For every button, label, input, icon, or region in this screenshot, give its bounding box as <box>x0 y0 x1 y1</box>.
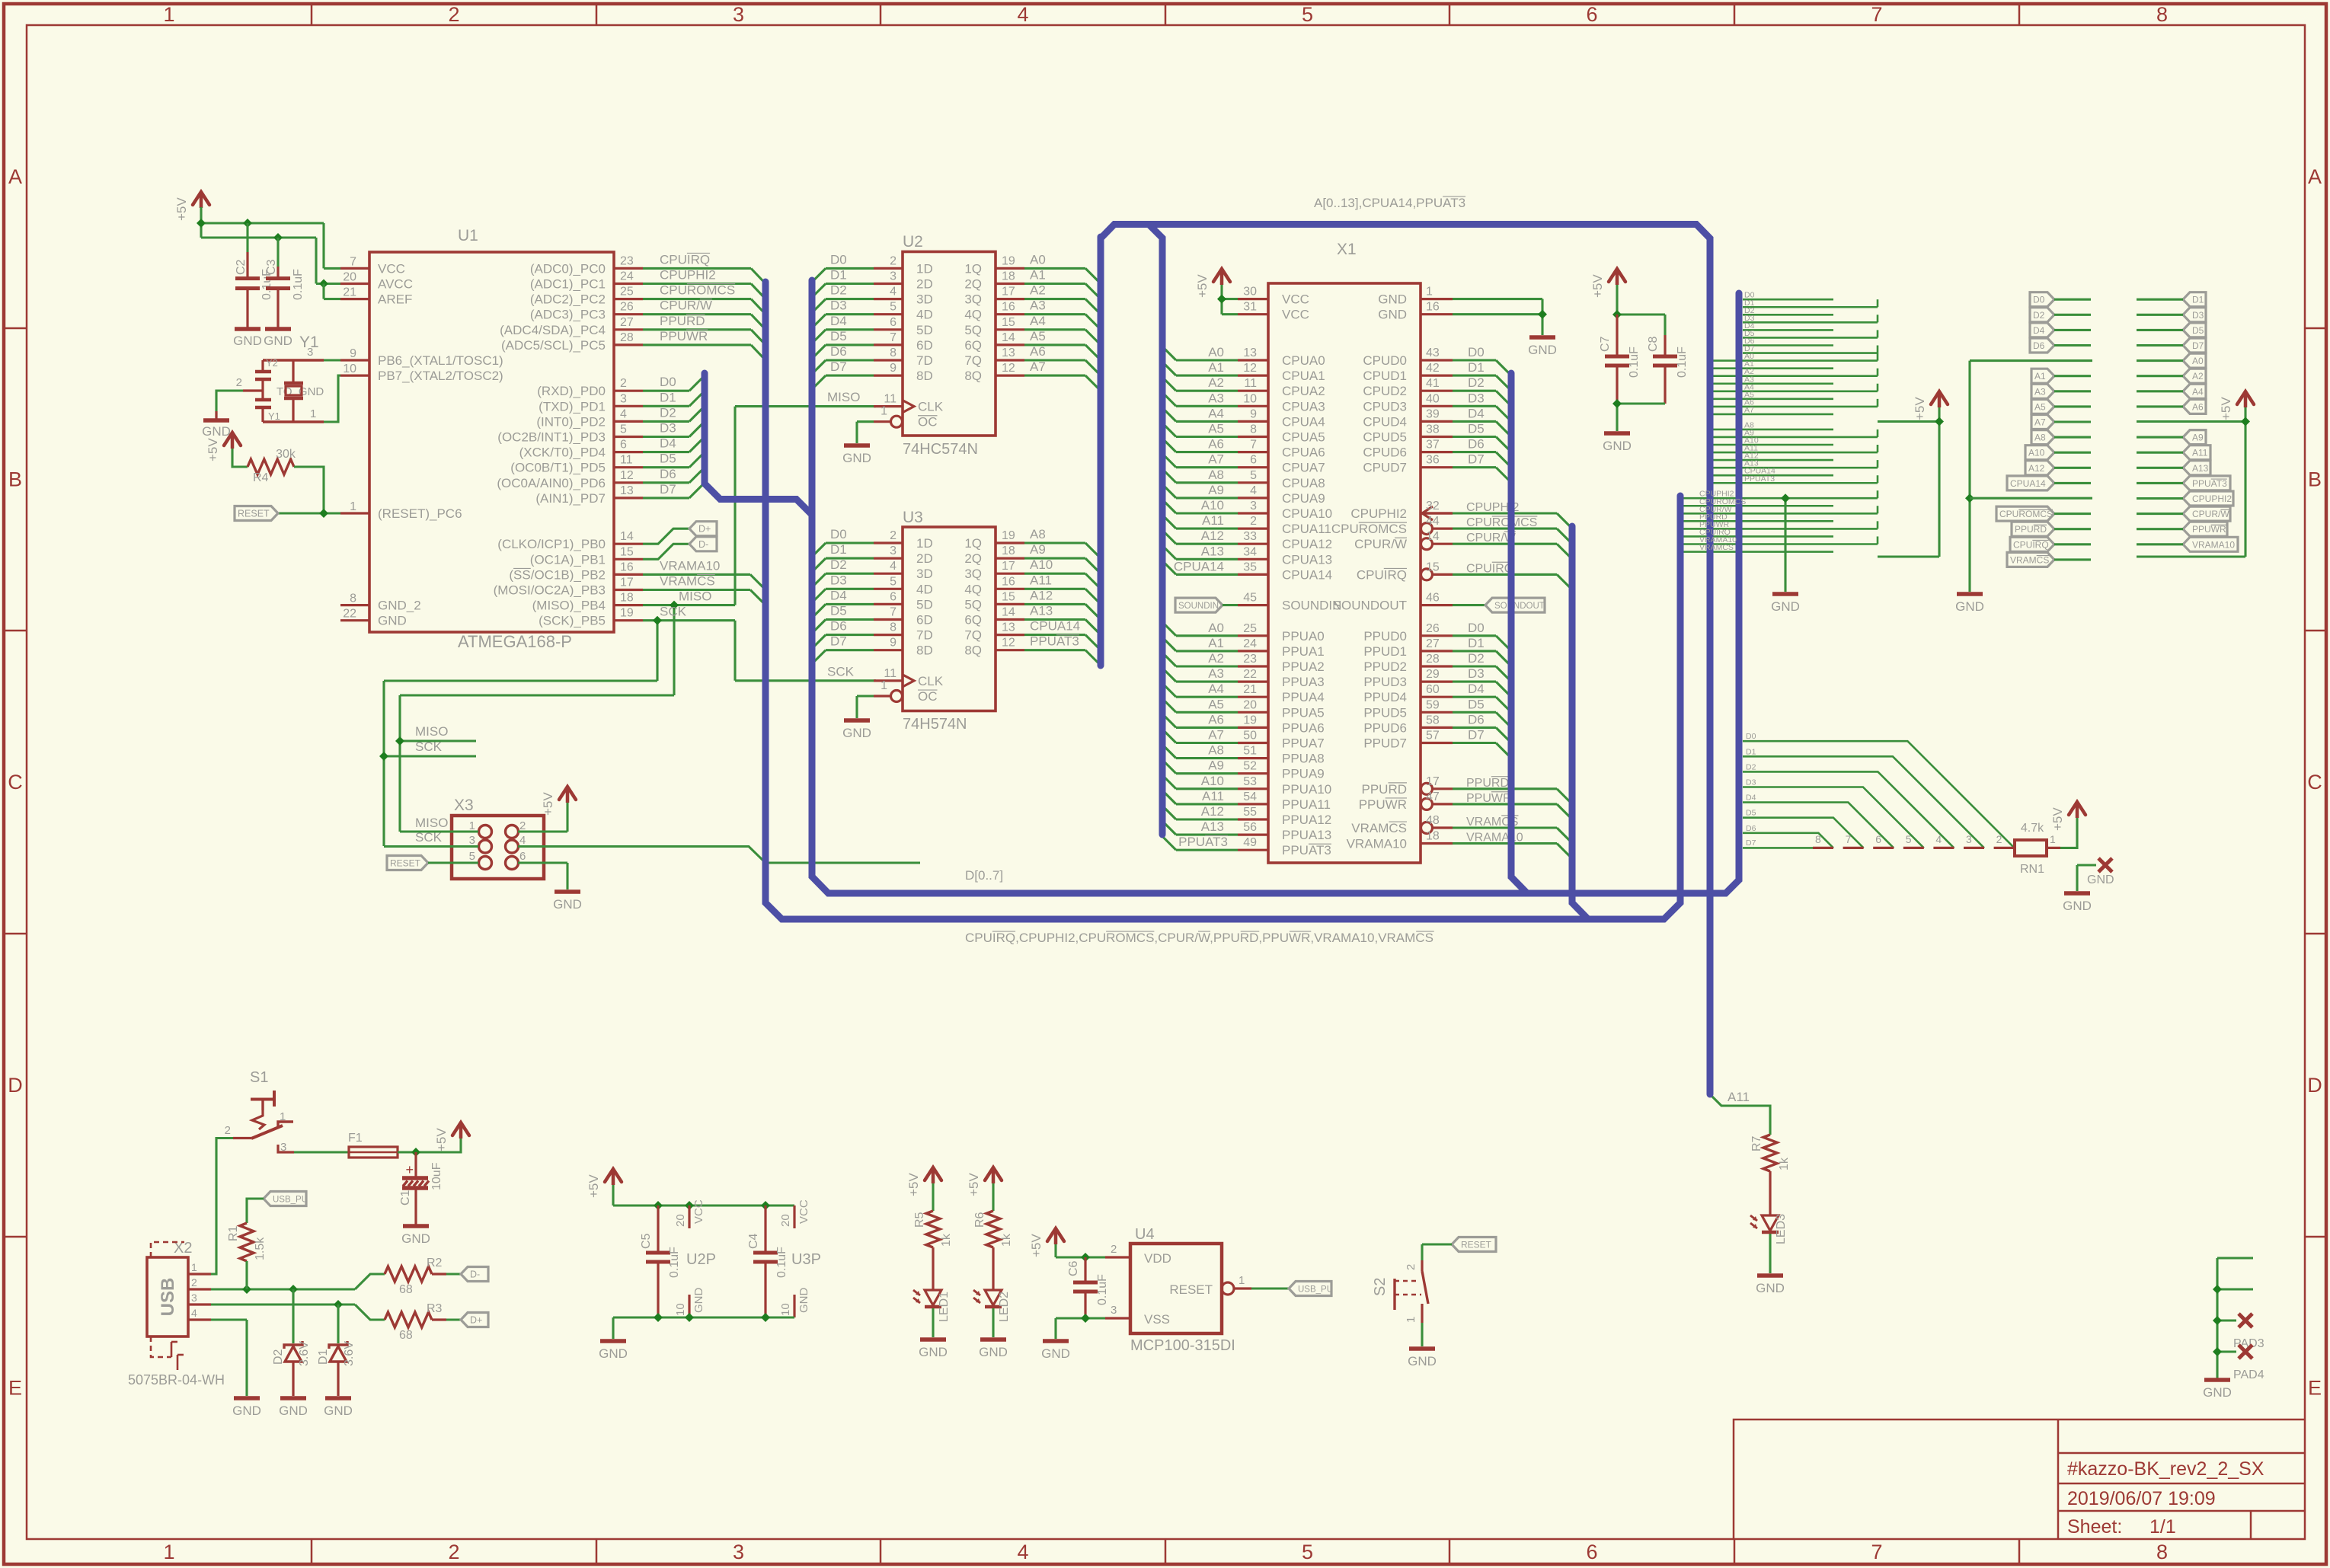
wire ground riser left bundle <box>1784 498 1786 592</box>
svg-text:D7: D7 <box>1468 452 1485 467</box>
svg-text:4: 4 <box>1017 3 1028 26</box>
svg-text:13: 13 <box>1243 346 1257 359</box>
svg-text:Y1: Y1 <box>268 410 280 422</box>
X1 pin 1 GND <box>1421 298 1453 300</box>
svg-text:PPUD5: PPUD5 <box>1363 705 1407 720</box>
svg-text:A8: A8 <box>1208 743 1224 758</box>
X1 pin 9 CPUA4 <box>1238 420 1268 423</box>
svg-text:2: 2 <box>620 377 627 390</box>
svg-text:49: 49 <box>1243 836 1257 849</box>
U1 pin 18 <box>614 604 643 606</box>
flag SOUNDOUT <box>1453 604 1485 606</box>
X1 pin 56 PPUA13 <box>1238 833 1268 835</box>
U2 pin 15 5Q <box>996 328 1024 331</box>
svg-text:3D: 3D <box>916 567 933 581</box>
svg-text:PPUA13: PPUA13 <box>1282 828 1331 842</box>
U3 pin 18 2Q <box>996 557 1024 559</box>
svg-text:3: 3 <box>469 834 475 847</box>
svg-text:20: 20 <box>674 1214 687 1227</box>
wire SCK to X3 pin3 <box>384 845 478 848</box>
junction pad rows <box>2213 1285 2222 1294</box>
wire VRAMA10 from U1 <box>643 573 750 576</box>
svg-text:27: 27 <box>620 316 634 329</box>
svg-text:8: 8 <box>1815 833 1821 845</box>
svg-text:A9: A9 <box>2192 433 2204 443</box>
svg-text:1: 1 <box>881 405 887 418</box>
svg-text:SCK: SCK <box>827 665 855 679</box>
bus data vertical to bottom <box>812 280 1739 893</box>
svg-text:2: 2 <box>1405 1264 1417 1270</box>
wire D4 from X1 PPUD4 to data bus <box>1453 696 1496 698</box>
wire D3 from U1 to data bus <box>643 436 689 438</box>
svg-text:VCC: VCC <box>692 1199 705 1224</box>
flag D2 left column <box>2030 308 2054 322</box>
svg-text:A11: A11 <box>1728 1090 1750 1104</box>
svg-text:GND: GND <box>279 1404 308 1418</box>
ground mid column <box>1957 592 1983 596</box>
svg-text:9: 9 <box>890 362 897 375</box>
svg-text:1: 1 <box>2050 833 2056 845</box>
svg-text:CPUPHI2: CPUPHI2 <box>2192 493 2232 504</box>
svg-text:PPUD6: PPUD6 <box>1363 720 1407 735</box>
svg-text:7: 7 <box>350 255 356 268</box>
svg-text:(MISO)_PB4: (MISO)_PB4 <box>532 599 606 613</box>
svg-text:8D: 8D <box>916 643 933 658</box>
svg-text:C7: C7 <box>1599 336 1612 352</box>
svg-text:PPUA10: PPUA10 <box>1282 782 1331 797</box>
svg-text:4D: 4D <box>916 582 933 596</box>
svg-text:PPUA3: PPUA3 <box>1282 675 1325 689</box>
svg-text:3: 3 <box>280 1141 286 1154</box>
wire AREF <box>319 279 328 289</box>
svg-text:2: 2 <box>448 1541 459 1563</box>
junction C4 top <box>761 1201 770 1210</box>
junction X1 VCC <box>1217 295 1226 304</box>
svg-text:(INT0)_PD2: (INT0)_PD2 <box>536 414 606 429</box>
svg-text:GND: GND <box>1408 1354 1437 1368</box>
X1 pin 24 PPUA1 <box>1238 650 1268 652</box>
X1 pin 60 PPUD4 <box>1421 696 1453 698</box>
flag PPURD left column <box>2012 522 2054 536</box>
svg-text:(CLKO/ICP1)_PB0: (CLKO/ICP1)_PB0 <box>497 537 606 551</box>
svg-text:D6: D6 <box>660 467 676 481</box>
wire RESET to USB_PU flag <box>1251 1287 1289 1289</box>
wire D1 from U1 to data bus <box>643 405 689 407</box>
svg-text:D6: D6 <box>2033 340 2045 351</box>
wire A9 from address bus to X1 CPUA9 <box>1162 484 1176 498</box>
svg-text:D4: D4 <box>660 436 676 451</box>
wire X1 GND pins to ground <box>1453 298 1542 300</box>
wire LED3 to ground <box>1769 1234 1771 1273</box>
svg-text:19: 19 <box>1002 254 1015 267</box>
X1 pin 37 CPUD6 <box>1421 451 1453 453</box>
X1 pin 44 CPUROMCS <box>1421 523 1433 535</box>
svg-text:VCC: VCC <box>378 261 405 276</box>
svg-text:SOUNDIN: SOUNDIN <box>1178 602 1219 611</box>
power +5V at F1 <box>452 1123 469 1135</box>
svg-text:13: 13 <box>1002 346 1015 359</box>
svg-text:A7: A7 <box>1208 728 1224 742</box>
wire A8 bundle stub <box>1713 429 1833 431</box>
junction C4 bottom <box>761 1313 770 1322</box>
svg-text:PPURD: PPURD <box>660 314 705 328</box>
svg-text:68: 68 <box>399 1329 413 1342</box>
svg-text:36: 36 <box>1426 454 1440 467</box>
U2 pin 9 8D <box>874 375 903 377</box>
flag A10 left column <box>2025 445 2054 460</box>
svg-text:A10: A10 <box>1201 498 1224 513</box>
wire A2 to flag <box>2137 375 2183 377</box>
svg-text:20: 20 <box>343 271 356 284</box>
X1 pin 8 CPUA5 <box>1238 436 1268 438</box>
wire control from X1 to control bus <box>1453 787 1557 790</box>
svg-text:1: 1 <box>881 679 887 692</box>
wire D6 from U1 to data bus <box>643 481 689 484</box>
X1 pin 30 VCC <box>1238 298 1268 300</box>
svg-text:17: 17 <box>1002 560 1015 573</box>
svg-text:CPUD0: CPUD0 <box>1363 353 1407 368</box>
U1 pin 20 AVCC <box>340 283 369 285</box>
svg-text:D+: D+ <box>470 1315 482 1326</box>
X1 pin 40 CPUD3 <box>1421 405 1453 407</box>
svg-text:GND: GND <box>1771 599 1800 614</box>
U1 pin 25 <box>614 298 643 300</box>
svg-text:6: 6 <box>519 850 526 863</box>
svg-text:C: C <box>8 771 23 794</box>
U2 pin 7 6D <box>874 343 903 346</box>
svg-text:+5V: +5V <box>2219 397 2233 420</box>
svg-text:1k: 1k <box>940 1233 953 1247</box>
wire A5 from address bus to X1 PPUA5 <box>1162 698 1176 712</box>
X1 pin 45 SOUNDIN <box>1238 604 1268 606</box>
wire control from X1 to control bus <box>1453 573 1557 576</box>
svg-text:D7: D7 <box>1746 838 1756 848</box>
svg-text:GND: GND <box>378 614 407 628</box>
U3 pin 1 OC <box>891 691 903 702</box>
junction C3 top <box>273 233 283 242</box>
connector X1 outline <box>1268 283 1421 863</box>
svg-text:5: 5 <box>1302 1541 1313 1563</box>
svg-text:3.6V: 3.6V <box>343 1341 356 1366</box>
svg-text:0.1uF: 0.1uF <box>1628 346 1641 378</box>
svg-text:10: 10 <box>779 1303 792 1316</box>
svg-text:3: 3 <box>307 346 313 359</box>
svg-text:D0: D0 <box>1468 621 1485 635</box>
svg-text:A9: A9 <box>1208 758 1224 773</box>
wire X3 pin6 to ground <box>518 861 567 864</box>
svg-text:S2: S2 <box>1372 1278 1389 1296</box>
svg-text:11: 11 <box>1244 377 1257 390</box>
wire R7 to LED3 <box>1769 1171 1771 1214</box>
wire A11 to flag <box>2137 452 2183 454</box>
svg-text:19: 19 <box>620 607 634 620</box>
U4 pin 3 VSS <box>1105 1317 1130 1319</box>
svg-text:CPUA14: CPUA14 <box>2010 478 2046 489</box>
svg-text:D1: D1 <box>660 390 676 404</box>
U3 pin 2 1D <box>874 541 903 544</box>
svg-text:CPUD6: CPUD6 <box>1363 445 1407 460</box>
wire pad ladder <box>2216 1258 2218 1378</box>
svg-text:8D: 8D <box>916 369 933 383</box>
wire CPUA14 from flag <box>2054 482 2091 484</box>
wire PPURD from flag <box>2054 528 2091 530</box>
X1 pin 22 PPUA3 <box>1238 680 1268 682</box>
wire A9 bundle stub <box>1713 436 1878 439</box>
wire D7 from X1 CPUD7 to data bus <box>1453 466 1496 468</box>
wire +5V to X1 VCC pins <box>1220 285 1223 315</box>
wire USB_PU to R1 <box>247 1199 264 1223</box>
svg-text:B: B <box>2308 468 2322 491</box>
U2 pin 18 2Q <box>996 283 1024 285</box>
wire D7 bundle stub <box>1743 352 1878 354</box>
svg-text:GND: GND <box>2087 873 2114 886</box>
svg-text:(XCK/T0)_PD4: (XCK/T0)_PD4 <box>519 445 606 460</box>
junction C1 top <box>411 1148 420 1157</box>
svg-text:CPUA1: CPUA1 <box>1282 369 1325 383</box>
svg-text:CPUR/W: CPUR/W <box>2192 509 2229 519</box>
svg-text:CPUA14: CPUA14 <box>1030 619 1080 634</box>
svg-text:22: 22 <box>343 608 356 621</box>
svg-text:A: A <box>8 165 22 188</box>
svg-text:PPUA4: PPUA4 <box>1282 690 1325 704</box>
svg-text:3.6V: 3.6V <box>298 1341 311 1366</box>
svg-text:5: 5 <box>620 423 627 436</box>
svg-text:CPUROMCS: CPUROMCS <box>1331 522 1407 536</box>
svg-text:R2: R2 <box>427 1257 443 1269</box>
svg-text:CPUIRQ: CPUIRQ <box>1466 562 1513 575</box>
svg-text:CPUIRQ: CPUIRQ <box>660 252 710 267</box>
wire D4 from X1 CPUD4 to data bus <box>1453 420 1496 423</box>
wire D- X2 pin2 <box>211 1288 355 1290</box>
svg-text:D4: D4 <box>1468 406 1485 420</box>
svg-text:4: 4 <box>620 407 627 420</box>
svg-text:42: 42 <box>1426 362 1440 375</box>
svg-text:A6: A6 <box>1030 344 1046 359</box>
X1 pin 48 VRAMCS <box>1421 822 1433 834</box>
svg-text:CPUROMCS: CPUROMCS <box>1999 509 2053 519</box>
svg-text:4.7k: 4.7k <box>2021 822 2044 835</box>
svg-text:7D: 7D <box>916 628 933 643</box>
wire A10 bundle stub <box>1713 444 1833 446</box>
svg-text:CPUA7: CPUA7 <box>1282 461 1325 475</box>
ground X3 <box>555 889 580 894</box>
svg-text:A9: A9 <box>1030 542 1046 557</box>
wire D3 from X1 PPUD3 to data bus <box>1453 681 1496 683</box>
svg-text:A5: A5 <box>1030 329 1046 343</box>
svg-text:PPUD1: PPUD1 <box>1363 644 1407 659</box>
wire A11 from address bus to X1 CPUA11 <box>1162 515 1176 529</box>
svg-text:+5V: +5V <box>2050 807 2065 831</box>
X1 pin 26 PPUD0 <box>1421 634 1453 637</box>
svg-text:D7: D7 <box>2192 340 2204 351</box>
wire D+ X2 pin3 <box>211 1303 355 1305</box>
svg-text:8: 8 <box>2156 1541 2168 1563</box>
svg-text:15: 15 <box>1002 590 1015 603</box>
wire RN1 to +5V <box>2060 818 2077 848</box>
resistor R3 68 <box>385 1312 432 1327</box>
resistor R1 1.5k <box>240 1223 254 1261</box>
wire +5V to R4 <box>232 449 248 467</box>
svg-text:1: 1 <box>1239 1274 1245 1287</box>
ground below C2 <box>235 327 260 331</box>
X1 pin 51 PPUA8 <box>1238 757 1268 759</box>
svg-text:1: 1 <box>280 1110 286 1123</box>
svg-text:U3: U3 <box>903 509 923 526</box>
svg-text:A7: A7 <box>1208 452 1224 467</box>
X1 pin 59 PPUD5 <box>1421 711 1453 714</box>
junction +5V left <box>1935 417 1944 426</box>
connector X2 USB <box>147 1257 188 1336</box>
svg-text:(SCK)_PB5: (SCK)_PB5 <box>539 614 606 628</box>
svg-text:32: 32 <box>1426 500 1440 513</box>
wire control from X1 to control bus <box>1453 842 1557 845</box>
X1 pin 43 CPUD0 <box>1421 359 1453 361</box>
wire D0 from flag <box>2054 299 2091 301</box>
X1 pin 58 PPUD6 <box>1421 727 1453 729</box>
svg-text:13: 13 <box>1002 621 1015 634</box>
svg-text:5: 5 <box>890 301 897 314</box>
wire A6 to flag <box>2137 405 2183 407</box>
flag SOUNDIN <box>1175 598 1223 612</box>
svg-text:A: A <box>2308 165 2322 188</box>
svg-text:U2: U2 <box>903 233 923 251</box>
svg-text:A3: A3 <box>1208 391 1224 405</box>
wire VRAMA10 bundle stub <box>1683 543 1878 545</box>
svg-text:47: 47 <box>1426 790 1440 803</box>
flag D0 left column <box>2030 292 2054 307</box>
X1 pin 25 PPUA0 <box>1238 634 1268 637</box>
svg-text:52: 52 <box>1243 760 1257 773</box>
wire RESET to S2 <box>1422 1243 1452 1245</box>
svg-text:A11: A11 <box>2192 448 2208 458</box>
wire +5V to C7 C8 <box>1616 285 1618 315</box>
LED LED1 <box>932 1289 934 1290</box>
ground latch supply <box>600 1339 626 1343</box>
svg-text:3: 3 <box>620 392 627 405</box>
X1 pin 33 CPUA12 <box>1238 543 1268 545</box>
svg-text:3: 3 <box>890 544 897 557</box>
svg-text:GND: GND <box>1756 1281 1785 1295</box>
svg-text:USB_PU: USB_PU <box>273 1196 308 1205</box>
ground Y1 <box>215 411 217 419</box>
U1 pin 23 <box>614 267 643 270</box>
svg-text:+5V: +5V <box>586 1174 601 1198</box>
svg-text:A2: A2 <box>2192 371 2204 382</box>
svg-text:RESET: RESET <box>238 509 270 519</box>
U1 pin 2 <box>614 390 643 392</box>
svg-text:26: 26 <box>1426 622 1440 635</box>
U1 pin 11 <box>614 466 643 468</box>
U2 pin 6 5D <box>874 328 903 331</box>
junction MISO stub <box>395 736 404 746</box>
svg-text:D1: D1 <box>1746 747 1756 756</box>
wire +5V supply rail <box>612 1185 614 1206</box>
U2 pin 12 8Q <box>996 375 1024 377</box>
svg-text:PPUA2: PPUA2 <box>1282 659 1325 674</box>
wire CPUPHI2 row mid link <box>1970 497 2092 500</box>
junction C6 top <box>1081 1253 1090 1262</box>
wire A3 from flag <box>2054 390 2091 392</box>
power +5V at RN1 <box>2069 802 2085 815</box>
flag RESET <box>235 506 278 521</box>
svg-text:PPUA9: PPUA9 <box>1282 767 1325 781</box>
U2 pin 13 7Q <box>996 359 1024 361</box>
flag D- <box>689 537 717 551</box>
U2 pin 17 3Q <box>996 298 1024 300</box>
svg-text:CPUA11: CPUA11 <box>1282 522 1331 536</box>
svg-text:PPUAT3: PPUAT3 <box>2192 478 2227 489</box>
wire A9 to flag <box>2137 436 2183 439</box>
junction C2 top <box>243 219 252 228</box>
svg-text:CPUD3: CPUD3 <box>1363 399 1407 414</box>
svg-text:CPUA13: CPUA13 <box>1282 552 1332 567</box>
wire D6 from X1 PPUD6 to data bus <box>1453 727 1496 729</box>
svg-text:46: 46 <box>1426 592 1440 605</box>
junction C6 bottom <box>1081 1314 1090 1323</box>
title block outline <box>1734 1420 2305 1539</box>
svg-text:CPUROMCS: CPUROMCS <box>660 283 735 298</box>
svg-text:2: 2 <box>236 376 242 389</box>
svg-text:D3: D3 <box>2192 310 2204 321</box>
svg-text:33: 33 <box>1243 530 1257 543</box>
X1 pin 11 CPUA2 <box>1238 390 1268 392</box>
svg-text:D6: D6 <box>830 344 847 359</box>
svg-text:GND: GND <box>1378 292 1407 307</box>
svg-text:8Q: 8Q <box>964 643 982 658</box>
capacitor C1 10uF polarized <box>414 1152 417 1177</box>
svg-text:18: 18 <box>1426 830 1440 843</box>
svg-text:1: 1 <box>1426 286 1433 299</box>
wire A13 to flag <box>2137 467 2183 469</box>
flag RESET at X3 <box>387 856 428 870</box>
X1 pin 57 PPUD7 <box>1421 742 1453 744</box>
wire CPUR/W bundle stub <box>1683 513 1878 515</box>
svg-text:CPUA14: CPUA14 <box>1174 559 1224 573</box>
svg-text:(TXD)_PD1: (TXD)_PD1 <box>539 399 606 414</box>
svg-text:SCK: SCK <box>415 739 443 754</box>
power +5V for R6 <box>985 1167 1002 1180</box>
ground D1 <box>325 1396 351 1400</box>
svg-text:6D: 6D <box>916 613 933 628</box>
svg-text:A8: A8 <box>2034 433 2046 443</box>
svg-text:5: 5 <box>1250 469 1257 482</box>
svg-text:CPUD1: CPUD1 <box>1363 369 1407 383</box>
wire D lines to RN1 <box>1743 741 2015 848</box>
junction R1 bottom <box>242 1285 251 1294</box>
svg-text:PPUA7: PPUA7 <box>1282 736 1325 751</box>
svg-text:VRAMCS: VRAMCS <box>1351 821 1407 835</box>
U1 pin 5 <box>614 436 643 438</box>
svg-text:25: 25 <box>1243 622 1257 635</box>
svg-text:D1: D1 <box>1468 636 1485 650</box>
svg-text:D6: D6 <box>1468 437 1485 452</box>
svg-text:RESET: RESET <box>1169 1282 1213 1297</box>
svg-text:A4: A4 <box>1208 406 1224 420</box>
svg-text:A11: A11 <box>1202 513 1224 528</box>
svg-text:2D: 2D <box>916 551 933 566</box>
svg-text:GND: GND <box>232 1404 261 1418</box>
svg-text:2D: 2D <box>916 277 933 292</box>
svg-text:48: 48 <box>1426 814 1440 827</box>
svg-text:D3: D3 <box>1746 778 1756 787</box>
svg-text:+5V: +5V <box>541 792 555 816</box>
flag A2 right column <box>2183 369 2206 383</box>
svg-text:U1: U1 <box>458 227 478 244</box>
svg-text:D3: D3 <box>830 573 847 587</box>
junction RESET node <box>319 509 328 518</box>
svg-text:SCK: SCK <box>660 605 687 619</box>
svg-text:D2: D2 <box>2033 310 2045 321</box>
